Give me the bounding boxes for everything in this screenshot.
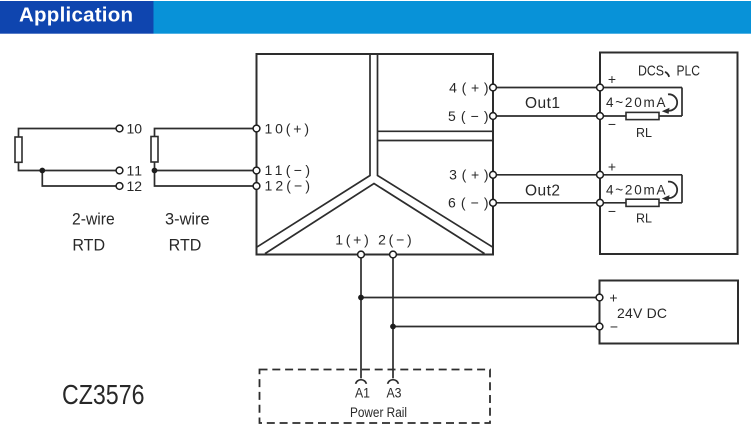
svg-text:12(−): 12(−)	[265, 178, 311, 194]
svg-text:11: 11	[127, 163, 143, 179]
svg-text:2-wire: 2-wire	[72, 209, 115, 228]
svg-text:RTD: RTD	[169, 236, 202, 255]
svg-text:Power Rail: Power Rail	[350, 405, 407, 420]
svg-text:RL: RL	[636, 212, 652, 226]
svg-text:3(+): 3(+)	[449, 167, 488, 183]
svg-text:A3: A3	[387, 385, 402, 401]
svg-text:+: +	[608, 71, 616, 87]
svg-text:Out1: Out1	[525, 95, 560, 112]
svg-text:−: −	[608, 203, 616, 219]
svg-text:5(−): 5(−)	[448, 108, 489, 124]
svg-text:CZ3576: CZ3576	[62, 379, 145, 410]
svg-text:24V DC: 24V DC	[617, 305, 667, 321]
svg-text:4(+): 4(+)	[449, 79, 488, 95]
svg-text:4~20mA: 4~20mA	[606, 95, 666, 110]
svg-text:10: 10	[127, 121, 143, 137]
svg-text:11(−): 11(−)	[265, 162, 311, 178]
svg-text:RL: RL	[636, 126, 652, 140]
svg-text:Application: Application	[19, 4, 133, 27]
svg-text:4~20mA: 4~20mA	[606, 182, 666, 197]
svg-text:RTD: RTD	[72, 236, 105, 255]
svg-text:1(+) 2(−): 1(+) 2(−)	[335, 231, 412, 247]
svg-text:Out2: Out2	[525, 183, 560, 200]
svg-text:+: +	[609, 289, 617, 305]
svg-text:A1: A1	[355, 385, 370, 401]
svg-text:PLC: PLC	[677, 62, 701, 79]
svg-text:6(−): 6(−)	[448, 195, 489, 211]
svg-text:3-wire: 3-wire	[165, 209, 210, 228]
svg-text:DCS: DCS	[638, 62, 664, 79]
svg-text:+: +	[608, 158, 616, 174]
svg-text:−: −	[608, 116, 616, 132]
svg-text:10(+): 10(+)	[265, 121, 310, 137]
svg-text:12: 12	[127, 178, 143, 194]
